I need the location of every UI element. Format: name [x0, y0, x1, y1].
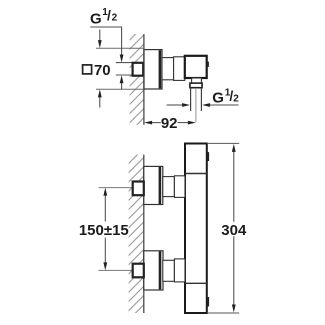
svg-text:304: 304 [221, 222, 247, 239]
svg-text:92: 92 [161, 115, 178, 132]
svg-text:2: 2 [112, 13, 118, 24]
svg-text:2: 2 [233, 93, 239, 104]
svg-text:70: 70 [94, 62, 111, 79]
svg-text:/: / [107, 7, 111, 23]
svg-text:G: G [212, 90, 224, 107]
svg-text:G: G [90, 10, 102, 27]
svg-text:150±15: 150±15 [79, 222, 129, 239]
